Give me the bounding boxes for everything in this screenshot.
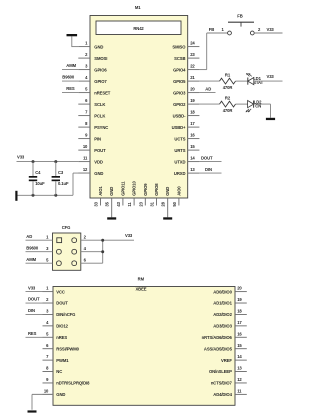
junction <box>54 194 57 197</box>
svg-text:NC: NC <box>56 369 62 374</box>
svg-text:470R: 470R <box>223 108 233 113</box>
net RES wire <box>26 336 43 338</box>
svg-text:0.1uF: 0.1uF <box>58 181 69 186</box>
net AD wire <box>199 92 215 94</box>
M1 bottom pin 35 GND <box>111 198 113 217</box>
M1 pin 10 POUT <box>78 149 90 151</box>
svg-text:20: 20 <box>190 87 195 92</box>
svg-text:R2: R2 <box>225 96 231 101</box>
svg-text:AD: AD <box>26 234 32 239</box>
svg-text:DOUT: DOUT <box>28 297 40 302</box>
RM pin 11 AD4/DIO4 <box>235 393 247 395</box>
net RES wire <box>62 92 78 94</box>
svg-text:V33: V33 <box>267 74 275 79</box>
svg-text:GPIO5: GPIO5 <box>173 79 186 84</box>
svg-text:VDD: VDD <box>94 159 103 164</box>
svg-text:12: 12 <box>83 167 88 172</box>
CFG pin 2 <box>72 238 77 243</box>
svg-text:AD1/DIO1: AD1/DIO1 <box>213 301 232 306</box>
net DOUT wire <box>199 161 221 163</box>
svg-text:nCTS/DIO7: nCTS/DIO7 <box>211 381 233 386</box>
svg-text:33: 33 <box>94 201 99 206</box>
M1 pin 2 SMOSI <box>78 57 90 59</box>
wire GPIO5 to R1 <box>199 80 219 82</box>
M1 pin 6 SCLK <box>78 103 90 105</box>
RM pin 10 GND <box>43 393 54 395</box>
svg-text:nRESET: nRESET <box>94 90 110 95</box>
svg-text:13: 13 <box>237 366 242 371</box>
svg-text:GPIO6: GPIO6 <box>94 67 107 72</box>
ground <box>15 191 17 201</box>
svg-text:GPIO9: GPIO9 <box>143 183 148 196</box>
CFG pin 1 <box>57 238 62 243</box>
M1 bottom pin 33 AIO1 <box>100 198 102 206</box>
M1 pin 9 PIN <box>78 138 90 140</box>
wire pin12 GND <box>72 173 74 195</box>
svg-text:35: 35 <box>105 201 110 206</box>
svg-text:AD: AD <box>205 87 211 92</box>
svg-text:AMM: AMM <box>66 63 76 68</box>
svg-text:14: 14 <box>237 354 242 359</box>
svg-text:DOUT: DOUT <box>201 156 213 161</box>
svg-text:GPIO11: GPIO11 <box>120 181 125 196</box>
svg-text:18: 18 <box>190 110 195 115</box>
LED LD2 <box>253 101 255 108</box>
svg-text:URTS: URTS <box>174 148 185 153</box>
svg-text:USBD+: USBD+ <box>172 125 186 130</box>
wire button to V33 <box>254 32 282 34</box>
svg-text:V33: V33 <box>267 27 275 32</box>
svg-text:19: 19 <box>190 98 195 103</box>
wire CFG pin6 <box>81 262 103 264</box>
M1 pin 1 GND <box>78 46 90 48</box>
wire V33 bus vertical <box>102 240 104 263</box>
svg-text:UCTS: UCTS <box>174 136 185 141</box>
svg-text:AD4/DIO4: AD4/DIO4 <box>213 392 232 397</box>
svg-text:POUT: POUT <box>94 148 106 153</box>
M1 bottom pin 31 GPIO8 <box>156 198 158 206</box>
ground <box>67 34 78 36</box>
CFG pin 3 <box>57 249 62 254</box>
svg-text:15: 15 <box>190 144 195 149</box>
svg-text:VREF: VREF <box>221 358 232 363</box>
svg-text:10: 10 <box>83 144 88 149</box>
junction <box>54 160 57 163</box>
svg-text:AMM: AMM <box>26 257 36 262</box>
svg-text:16: 16 <box>190 133 195 138</box>
ground <box>28 410 37 412</box>
net B9600 wire <box>62 80 78 82</box>
svg-text:nRTS/AD6/DIO6: nRTS/AD6/DIO6 <box>202 335 233 340</box>
net AD wire <box>26 239 53 241</box>
RM pin 18 AD2/DIO2 <box>235 313 247 315</box>
M1 pin 4 GPIO7 <box>78 80 90 82</box>
svg-text:19: 19 <box>237 297 242 302</box>
svg-text:17: 17 <box>237 320 242 325</box>
svg-text:V33: V33 <box>17 154 25 159</box>
RM pin 1 VCC <box>43 291 54 293</box>
M1 pin 18 USBD- <box>188 115 200 117</box>
svg-text:14: 14 <box>190 156 195 161</box>
wire LD1 to V33 <box>254 80 283 82</box>
connector RM body: XBEE box <box>53 287 235 406</box>
wire V33 rail <box>17 161 79 163</box>
svg-text:28: 28 <box>161 201 166 206</box>
M1 bottom pin 28 GND <box>167 198 169 217</box>
svg-text:ASS/AD5/DIO5: ASS/AD5/DIO5 <box>204 346 233 351</box>
M1 bottom pin 43 GPIO11 <box>122 198 124 206</box>
net DOUT wire <box>26 302 43 304</box>
net DIN wire <box>26 313 43 315</box>
wire CFG pin4 <box>81 251 103 253</box>
svg-text:PIN: PIN <box>94 136 101 141</box>
svg-text:SMOSI: SMOSI <box>94 56 107 61</box>
svg-text:24: 24 <box>190 41 195 46</box>
net V33 wire <box>26 291 43 293</box>
M1 pin 5 nRESET <box>78 92 90 94</box>
CFG pin 4 <box>72 249 77 254</box>
M1 pin 8 PSYNC <box>78 126 90 128</box>
svg-text:18: 18 <box>237 309 242 314</box>
RM pin 14 VREF <box>235 359 247 361</box>
M1 pin 17 USBD+ <box>188 126 200 128</box>
svg-text:20: 20 <box>237 286 242 291</box>
M1 pin 23 SCSB <box>188 57 200 59</box>
svg-text:C4: C4 <box>35 170 41 175</box>
wire GPIO4 to button <box>199 69 206 71</box>
M1 pin 15 URTS <box>188 149 200 151</box>
svg-text:23: 23 <box>138 201 143 206</box>
RM pin 20 AD0/DIO0 <box>235 291 247 293</box>
svg-text:12: 12 <box>237 377 242 382</box>
svg-text:nRES: nRES <box>56 335 67 340</box>
svg-text:RES: RES <box>28 331 37 336</box>
svg-text:C3: C3 <box>58 170 64 175</box>
RM pin 12 nCTS/DIO7 <box>235 382 247 384</box>
CFG pin 5 <box>57 261 62 266</box>
RM pin 19 AD1/DIO1 <box>235 302 247 304</box>
svg-text:DIO12: DIO12 <box>56 324 68 329</box>
junction <box>32 160 35 163</box>
svg-text:PSYNC: PSYNC <box>94 125 108 130</box>
svg-text:GPIO7: GPIO7 <box>94 79 107 84</box>
junction <box>32 194 35 197</box>
svg-text:VCC: VCC <box>56 289 65 294</box>
svg-text:GND: GND <box>165 187 170 196</box>
M1 pin 14 UTXD <box>188 161 200 163</box>
svg-text:470R: 470R <box>223 85 233 90</box>
svg-text:GND: GND <box>56 392 65 397</box>
svg-text:21: 21 <box>190 75 195 80</box>
svg-text:GPIO10: GPIO10 <box>132 181 137 196</box>
RM pin 9 nDTR/SLPRQ/DI8 <box>43 382 54 384</box>
svg-text:13: 13 <box>190 167 195 172</box>
switch FB <box>228 31 232 35</box>
svg-text:15: 15 <box>237 343 242 348</box>
svg-text:UTXD: UTXD <box>174 159 185 164</box>
wire LD2 to ground <box>254 103 271 105</box>
svg-text:GPIO4: GPIO4 <box>173 67 186 72</box>
resistor R2 <box>220 101 236 107</box>
svg-text:23: 23 <box>190 52 195 57</box>
svg-text:16: 16 <box>237 331 242 336</box>
IC M1 RN42 bluetooth module body <box>90 16 188 199</box>
RM pin 2 DOUT <box>43 302 54 304</box>
capacitor C4 <box>32 162 34 176</box>
wire pin1 GND to ground <box>72 46 79 48</box>
net DIN wire <box>199 172 221 174</box>
M1 pin 16 UCTS <box>188 138 200 140</box>
svg-text:FB: FB <box>209 27 214 32</box>
RM pin 16 nRTS/AD6/DIO6 <box>235 336 247 338</box>
svg-text:AIO0: AIO0 <box>176 186 181 196</box>
M1 pin 21 GPIO5 <box>188 80 200 82</box>
RM pin 5 nRES <box>43 336 54 338</box>
svg-text:FB: FB <box>237 13 242 18</box>
svg-text:RES: RES <box>66 86 75 91</box>
svg-text:XBEE: XBEE <box>135 287 146 292</box>
svg-text:50: 50 <box>172 201 177 206</box>
svg-text:SMISO: SMISO <box>172 44 186 49</box>
svg-text:GND: GND <box>109 187 114 196</box>
svg-text:22: 22 <box>190 64 195 69</box>
wire R1 to LD1 <box>236 80 248 82</box>
svg-text:V33: V33 <box>125 233 133 238</box>
svg-text:CFG: CFG <box>62 225 71 230</box>
capacitor C3 <box>55 162 57 176</box>
M1 pin 20 GPIO3 <box>188 92 200 94</box>
value box RN42 <box>96 21 181 35</box>
RM pin 6 RSSI/PWM0 <box>43 348 54 350</box>
svg-text:17: 17 <box>190 121 195 126</box>
svg-text:GND: GND <box>94 44 103 49</box>
svg-text:ON/nSLEEP: ON/nSLEEP <box>209 369 232 374</box>
wire CFG pin2 to V33 <box>81 239 134 241</box>
svg-text:10uF: 10uF <box>35 181 45 186</box>
net AMM wire <box>26 262 53 264</box>
junction <box>101 239 104 242</box>
net AMM wire <box>62 69 78 71</box>
M1 bottom pin 23 GPIO9 <box>144 198 146 206</box>
svg-text:R1: R1 <box>225 72 231 77</box>
M1 bottom pin 50 AIO0 <box>178 198 180 206</box>
M1 pin 3 GPIO6 <box>78 69 90 71</box>
M1 pin 12 GND <box>78 172 90 174</box>
svg-text:B9600: B9600 <box>26 246 39 251</box>
svg-text:DIN: DIN <box>205 167 212 172</box>
svg-text:M1: M1 <box>135 5 141 10</box>
connector CFG body <box>53 233 81 270</box>
M1 pin 13 URXD <box>188 172 200 174</box>
svg-text:AD3/DIO3: AD3/DIO3 <box>213 324 232 329</box>
svg-text:GPIO2: GPIO2 <box>173 102 186 107</box>
ground <box>163 217 172 219</box>
svg-text:V33: V33 <box>28 285 36 290</box>
svg-text:AD0/DIO0: AD0/DIO0 <box>213 289 232 294</box>
LED LD1 <box>247 78 249 85</box>
ground <box>266 118 275 120</box>
RM pin 7 PWM1 <box>43 359 54 361</box>
svg-text:43: 43 <box>116 201 121 206</box>
svg-text:DIN: DIN <box>28 308 35 313</box>
svg-text:GND: GND <box>94 171 103 176</box>
M1 pin 11 VDD <box>78 161 90 163</box>
M1 bottom pin 11 GPIO10 <box>133 198 135 206</box>
svg-text:RSSI/PWM0: RSSI/PWM0 <box>56 346 79 351</box>
wire pin10 GND <box>32 393 53 395</box>
svg-text:RN42: RN42 <box>133 26 144 31</box>
svg-text:DIN/nCFG: DIN/nCFG <box>56 312 75 317</box>
resistor R1 <box>220 78 236 84</box>
RM pin 13 ON/nSLEEP <box>235 371 247 373</box>
wire GPIO2 to R2 <box>199 103 219 105</box>
wire R2 to LD2 <box>236 103 248 105</box>
svg-text:DOUT: DOUT <box>56 301 68 306</box>
svg-text:B9600: B9600 <box>62 75 75 80</box>
ground <box>107 217 116 219</box>
net B9600 wire <box>26 251 53 253</box>
svg-text:PWM1: PWM1 <box>56 358 69 363</box>
M1 pin 22 GPIO4 <box>188 69 200 71</box>
svg-text:31: 31 <box>150 201 155 206</box>
svg-text:SCLK: SCLK <box>94 102 105 107</box>
svg-text:nDTR/SLPRQ/DI8: nDTR/SLPRQ/DI8 <box>56 381 90 386</box>
svg-text:SCSB: SCSB <box>174 56 185 61</box>
svg-text:10: 10 <box>44 388 49 393</box>
svg-text:AD2/DIO2: AD2/DIO2 <box>213 312 232 317</box>
junction <box>101 250 104 253</box>
svg-text:PCLK: PCLK <box>94 113 105 118</box>
M1 pin 7 PCLK <box>78 115 90 117</box>
wire ground rail <box>17 194 73 196</box>
RM pin 15 ASS/AD5/DIO5 <box>235 348 247 350</box>
svg-text:URXD: URXD <box>174 171 186 176</box>
RM pin 8 NC <box>43 371 54 373</box>
svg-text:AIO1: AIO1 <box>98 186 103 196</box>
M1 pin 24 SMISO <box>188 46 200 48</box>
svg-text:GPIO3: GPIO3 <box>173 90 186 95</box>
RM pin 3 DIN/nCFG <box>43 313 54 315</box>
svg-text:GPIO8: GPIO8 <box>154 183 159 196</box>
RM pin 17 AD3/DIO3 <box>235 325 247 327</box>
CFG pin 6 <box>72 261 77 266</box>
M1 pin 19 GPIO2 <box>188 103 200 105</box>
svg-text:RM: RM <box>138 277 145 282</box>
svg-text:USBD-: USBD- <box>173 113 186 118</box>
RM pin 4 DIO12 <box>43 325 54 327</box>
